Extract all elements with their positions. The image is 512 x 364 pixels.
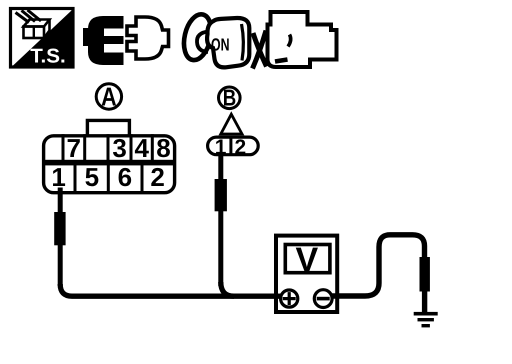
svg-text:2: 2: [150, 162, 164, 192]
probe sleeve on ground wire: [420, 257, 430, 292]
svg-text:T.S.: T.S.: [30, 45, 66, 67]
svg-text:3: 3: [112, 133, 126, 163]
svg-text:5: 5: [85, 162, 99, 192]
svg-text:2: 2: [235, 136, 247, 159]
connector label A: [96, 82, 121, 112]
ignition switch ON icon: [180, 12, 250, 68]
svg-text:8: 8: [156, 133, 170, 163]
wire to ground: [422, 291, 427, 312]
wire from negative terminal to ground circuit: [322, 235, 425, 296]
wire stub into positive terminal: [278, 294, 287, 299]
connector label B: [219, 85, 241, 111]
connector A lock tab: [87, 120, 129, 135]
connector A pin numbers 7 3 4 8: [66, 133, 170, 163]
wire B corner joining bottom run: [221, 282, 234, 296]
svg-text:B: B: [223, 85, 237, 111]
connector A pin dividers bottom row: [75, 165, 142, 193]
voltmeter display V: [285, 245, 330, 273]
svg-text:A: A: [101, 82, 117, 112]
connector B lock triangle: [221, 114, 242, 134]
voltmeter positive terminal: [281, 290, 298, 307]
svg-text:7: 7: [66, 133, 80, 163]
test connector art inside T.S. icon: [16, 10, 50, 38]
bottom horizontal wire run to voltmeter: [60, 284, 285, 296]
disconnect connector icon: male half: [83, 16, 124, 65]
connector A body: [44, 136, 175, 193]
voltmeter negative terminal: [314, 290, 332, 308]
engine stopped icon: [253, 12, 337, 69]
svg-text:ON: ON: [211, 34, 230, 54]
ground symbol: [414, 312, 438, 328]
connector A row divider: [43, 160, 176, 166]
svg-text:V: V: [295, 241, 318, 279]
wire A down to bottom run: [58, 245, 63, 286]
probe sleeve on wire B: [215, 179, 227, 211]
connector B pin numbers 1 2: [215, 136, 246, 159]
wire from connector A pin 1: [58, 188, 63, 215]
connector A pin numbers 1 5 6 2: [51, 162, 164, 192]
wire B down to junction: [218, 211, 223, 286]
disconnect connector icon: female half: [127, 17, 169, 59]
T.S. circuit tester icon: [11, 9, 74, 68]
svg-text:6: 6: [118, 162, 132, 192]
connector B body: [208, 137, 259, 155]
probe sleeve on wire A: [54, 212, 65, 245]
svg-text:4: 4: [134, 133, 149, 163]
connector B pin divider: [229, 137, 232, 155]
voltmeter body: [276, 236, 337, 312]
wire from connector B pin 1: [218, 156, 223, 182]
connector A pin dividers top row: [63, 134, 152, 160]
